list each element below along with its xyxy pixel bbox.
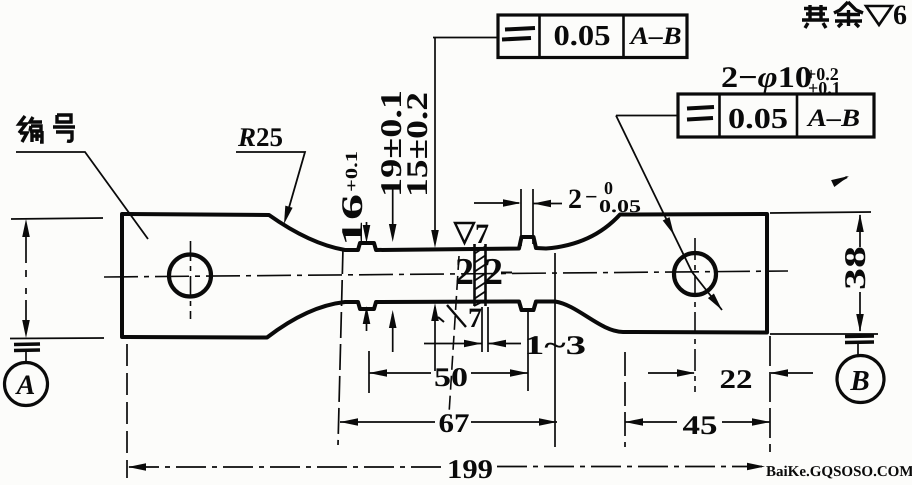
svg-text:16: 16 bbox=[336, 194, 369, 246]
svg-text:0.05: 0.05 bbox=[599, 196, 641, 216]
svg-text:45: 45 bbox=[683, 410, 718, 440]
svg-text:A: A bbox=[15, 370, 36, 401]
svg-text:+0.1: +0.1 bbox=[342, 151, 361, 192]
svg-text:38: 38 bbox=[839, 246, 872, 290]
svg-text:199: 199 bbox=[447, 454, 493, 484]
svg-text:50: 50 bbox=[434, 362, 468, 392]
svg-text:15±0.2: 15±0.2 bbox=[401, 92, 434, 197]
svg-text:1~3: 1~3 bbox=[524, 330, 586, 360]
svg-text:2: 2 bbox=[484, 251, 503, 293]
svg-text:+0.1: +0.1 bbox=[808, 78, 841, 98]
svg-text:7: 7 bbox=[475, 219, 489, 250]
svg-text:−: − bbox=[585, 184, 598, 209]
svg-text:0.05: 0.05 bbox=[554, 20, 611, 52]
svg-text:2: 2 bbox=[568, 184, 582, 215]
svg-text:6: 6 bbox=[893, 0, 907, 31]
svg-text:2: 2 bbox=[455, 251, 474, 293]
svg-text:67: 67 bbox=[439, 408, 470, 438]
svg-text:R25: R25 bbox=[237, 122, 283, 152]
svg-text:7: 7 bbox=[468, 303, 482, 334]
svg-text:0.05: 0.05 bbox=[728, 103, 788, 135]
svg-text:A–B: A–B bbox=[628, 23, 681, 50]
svg-text:22: 22 bbox=[720, 364, 753, 394]
svg-text:A–B: A–B bbox=[806, 105, 860, 132]
svg-text:BaiKe.GQSOSO.COM: BaiKe.GQSOSO.COM bbox=[766, 464, 912, 480]
svg-text:0: 0 bbox=[604, 178, 613, 198]
svg-text:B: B bbox=[849, 365, 869, 397]
svg-text:2−φ10: 2−φ10 bbox=[721, 61, 812, 94]
